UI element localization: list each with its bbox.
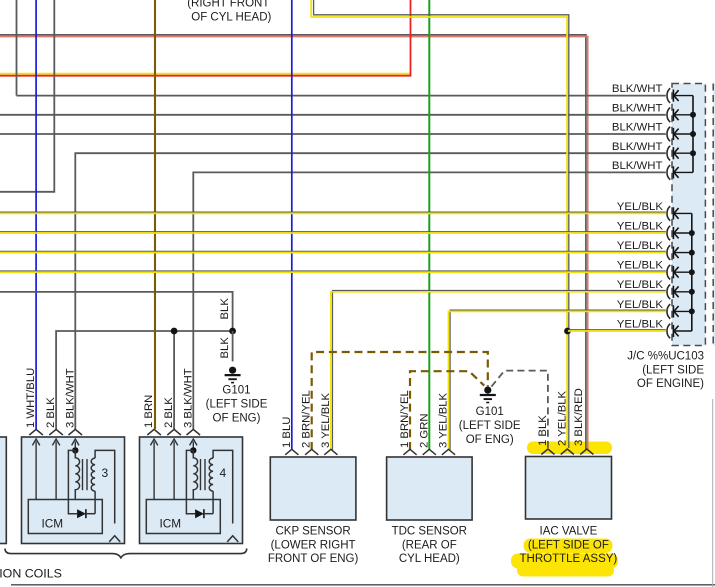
wire BLK/WHT 1 — [17, 95, 666, 97]
svg-text:(LEFT SIDE: (LEFT SIDE — [642, 364, 704, 376]
svg-text:FRONT OF ENG): FRONT OF ENG) — [268, 553, 359, 565]
wire YEL/BLK 7 (from IAC dot) yellow part — [568, 330, 666, 332]
svg-text:YEL/BLK: YEL/BLK — [617, 279, 664, 291]
label BLK on ground branch lower — [219, 337, 231, 359]
wire YEL/BLK 2 black stripe part — [0, 231, 666, 233]
svg-text:YEL/BLK: YEL/BLK — [617, 299, 664, 311]
J/C splice dot — [690, 131, 696, 137]
J/C terminal YEL/BLK 6 — [667, 304, 692, 319]
pin label 1 BRN/YEL (TDC) — [399, 390, 411, 448]
svg-text:G101: G101 — [222, 384, 250, 396]
svg-text:OF ENG): OF ENG) — [213, 413, 261, 425]
ignition coil 4 secondary winding — [209, 458, 213, 491]
svg-text:IAC VALVE: IAC VALVE — [540, 525, 598, 537]
label IAC VALVE — [520, 525, 618, 565]
ignition coil 3 secondary top lead — [95, 450, 115, 523]
J/C terminal YEL/BLK 1 — [667, 206, 692, 221]
svg-text:BLK: BLK — [219, 337, 231, 359]
pin label 3 BLK/WHT (coil 3) — [64, 368, 76, 428]
ignition coil 3 core — [83, 459, 88, 490]
pin label 3 YEL/BLK (CKP) — [320, 392, 332, 448]
highlighter mark over "(LEFT SIDE OF" — [524, 539, 613, 554]
ignition coil 4 pin 2 arrow — [170, 439, 177, 500]
J/C terminal YEL/BLK 4 — [667, 265, 692, 280]
wire BLK/WHT 5 (to coil 4 pin 3) — [193, 172, 666, 429]
pin label 1 WHT/BLU — [25, 368, 37, 428]
svg-text:BLK/WHT: BLK/WHT — [612, 141, 663, 153]
wire YEL/BLK 5 (from CKP pin 3) black stripe part — [333, 291, 666, 451]
label CKP SENSOR — [268, 525, 359, 565]
wire YEL/BLK 1 black stripe part — [0, 211, 666, 213]
svg-text:1 BLK: 1 BLK — [537, 415, 549, 446]
svg-text:3 BLK/WHT: 3 BLK/WHT — [182, 368, 194, 428]
pin label 1 BRN — [143, 395, 155, 428]
wire GRN (to TDC pin 2) — [428, 0, 430, 450]
svg-text:2 BLK: 2 BLK — [45, 397, 57, 428]
wire BLK branch to other coils — [0, 292, 233, 331]
ignition coil 3 junction dot — [72, 447, 78, 453]
TDC sensor box — [387, 457, 473, 520]
pin label 2 YEL/BLK (IAC) — [556, 390, 568, 446]
ignition coil (cut off) box — [0, 437, 6, 544]
ignition coil 4 diode output lead — [204, 491, 213, 514]
TDC sensor pin chevrons — [403, 449, 455, 455]
svg-text:1 BLU: 1 BLU — [281, 417, 293, 448]
svg-text:OF ENG): OF ENG) — [466, 434, 514, 446]
label J/C C103 — [627, 350, 704, 390]
J/C splice dot — [689, 289, 695, 295]
ignition coil 4 core — [201, 459, 206, 490]
J/C splice jumper BLK/WHT group — [692, 96, 694, 173]
wire YEL/BLK 6 (from TDC pin 3) yellow part — [449, 311, 666, 450]
wire BLK to ground G101 left — [232, 331, 234, 362]
J/C splice dot — [690, 112, 696, 118]
J/C terminal BLK/WHT 4 — [667, 146, 693, 161]
wire BLK exiting top left — [0, 0, 54, 192]
svg-text:OF ENGINE): OF ENGINE) — [637, 378, 704, 390]
wire YEL/BLK 7 (from IAC dot) black stripe part — [569, 329, 666, 331]
svg-text:(LEFT SIDE: (LEFT SIDE — [206, 399, 268, 411]
svg-text:THROTTLE ASSY): THROTTLE ASSY) — [520, 553, 618, 565]
wire BLK coil 3 pin 2 — [56, 331, 233, 429]
wire BLK/WHT 2 — [0, 114, 666, 116]
J/C terminal YEL/BLK 5 — [667, 285, 692, 300]
J/C splice dot — [689, 230, 695, 236]
highlighter mark over "THROTTLE ASSY)" — [511, 554, 618, 577]
ignition coil 3 bypass lead to diode — [68, 450, 77, 513]
J/C terminal BLK/WHT 2 — [667, 108, 693, 123]
ignition coil 4 ICM box — [146, 500, 220, 534]
J/C splice dot — [689, 269, 695, 275]
wire BRN/YEL from CKP pin 2 to G101 (dashed) — [312, 352, 488, 450]
note (RIGHT FRONT OF CYL HEAD) — [187, 0, 271, 24]
wire BRN/YEL from TDC pin 1 to G101 (dashed) — [410, 371, 484, 450]
pin label 2 BLK (coil 3) — [45, 397, 57, 428]
right frame line — [712, 399, 714, 587]
wire YEL/BLK 3 yellow part — [0, 252, 666, 254]
wire YEL/BLK 4 yellow part — [0, 271, 666, 273]
wire WHT/BLU (to coil 3 pin 1) — [35, 0, 37, 429]
J/C terminal YEL/BLK 2 — [667, 226, 692, 241]
ignition coil 4 pin chevrons — [147, 429, 200, 435]
pin label 1 BLK (IAC) — [537, 415, 549, 446]
label G101 right — [459, 406, 521, 446]
svg-text:3: 3 — [101, 466, 108, 480]
wire YEL/BLK 4 black stripe part — [0, 270, 666, 272]
CKP sensor box — [270, 457, 356, 520]
ignition coil 4 secondary top lead — [213, 450, 233, 523]
wire RED/YEL red part — [0, 0, 411, 76]
svg-text:YEL/BLK: YEL/BLK — [617, 318, 664, 330]
ignition coil 4 pin 1 arrow — [150, 439, 157, 500]
junction connector mating half sliver — [713, 84, 715, 346]
ignition coil 4 primary winding — [193, 450, 197, 499]
ignition coil 3 case chevron — [109, 536, 120, 542]
wire YEL/BLK 1 yellow part — [0, 212, 666, 214]
ignition coil 3 pin 2 arrow — [52, 439, 59, 500]
svg-text:(RIGHT FRONT: (RIGHT FRONT — [187, 0, 269, 9]
svg-text:BLK/WHT: BLK/WHT — [612, 102, 663, 114]
wire BLK coil 4 pin 2 — [173, 331, 175, 429]
junction dot BLK bus at coil 4 — [171, 328, 178, 335]
svg-text:G101: G101 — [476, 406, 504, 418]
svg-text:ICM: ICM — [160, 517, 182, 531]
wire YEL/BLK 6 (from TDC pin 3) black stripe part — [450, 310, 666, 450]
svg-text:2 GRN: 2 GRN — [418, 413, 430, 448]
svg-text:BLK: BLK — [219, 298, 231, 320]
ignition coil 3 diode — [77, 509, 86, 518]
svg-text:J/C %%UC103: J/C %%UC103 — [627, 350, 704, 362]
svg-text:4: 4 — [219, 466, 226, 480]
wire BRN (to coil 4 pin 1) — [154, 0, 156, 429]
svg-text:3 YEL/BLK: 3 YEL/BLK — [438, 392, 450, 448]
junction connector J/C C103 box — [672, 84, 705, 346]
ignition coil 3 secondary winding — [91, 458, 95, 491]
svg-text:(REAR OF: (REAR OF — [402, 539, 457, 551]
pin label 2 BRN/YEL (CKP) — [301, 390, 313, 448]
IAC valve box — [526, 457, 612, 520]
svg-text:IGNITION COILS: IGNITION COILS — [0, 566, 62, 580]
svg-text:2 YEL/BLK: 2 YEL/BLK — [556, 390, 568, 446]
svg-text:3 YEL/BLK: 3 YEL/BLK — [320, 392, 332, 448]
ignition coil 4 case chevron — [227, 536, 238, 542]
ground G101 right — [480, 387, 496, 403]
svg-text:CKP SENSOR: CKP SENSOR — [275, 525, 350, 537]
ignition coil 3 pin 1 arrow — [32, 439, 39, 500]
wire YEL/BLK 5 (from CKP pin 3) yellow part — [331, 292, 666, 450]
J/C terminal YEL/BLK 7 — [667, 324, 692, 339]
svg-text:(LEFT SIDE: (LEFT SIDE — [459, 420, 521, 432]
ignition coil 4 pin 3 arrow — [190, 439, 197, 450]
svg-text:3 BLK/WHT: 3 BLK/WHT — [64, 368, 76, 428]
J/C splice dot — [689, 308, 695, 314]
pin label 3 BLK/WHT (coil 4) — [182, 368, 194, 428]
wire BLK/WHT 4 (to coil 3 pin 3) — [75, 153, 666, 429]
svg-text:OF CYL HEAD): OF CYL HEAD) — [191, 12, 271, 24]
bottom frame line — [11, 584, 715, 586]
ignition coil 3 box — [22, 437, 125, 544]
svg-text:(LEFT SIDE OF: (LEFT SIDE OF — [528, 539, 609, 551]
svg-text:1 BRN/YEL: 1 BRN/YEL — [399, 390, 411, 448]
J/C splice jumper YEL/BLK group — [691, 213, 693, 331]
svg-text:2 BRN/YEL: 2 BRN/YEL — [301, 390, 313, 448]
ignition coil 3 pin chevrons — [29, 429, 82, 435]
svg-text:1 BRN: 1 BRN — [143, 395, 155, 428]
label G101 left — [206, 384, 268, 424]
wire YEL/BLK 3 black stripe part — [0, 250, 666, 252]
wire YEL/BLK to IAC pin 2, yellow part — [311, 0, 567, 448]
pin label 2 GRN — [418, 413, 430, 448]
ignition coil 4 junction dot — [190, 447, 196, 453]
J/C splice dot — [689, 250, 695, 256]
ground G101 left — [225, 367, 241, 383]
IAC valve pin chevrons — [541, 449, 593, 455]
svg-text:YEL/BLK: YEL/BLK — [617, 260, 664, 272]
svg-text:BLK/WHT: BLK/WHT — [612, 83, 663, 95]
wire RED/YEL yellow stripe part — [0, 73, 410, 75]
wire BLK/WHT 3 — [0, 133, 666, 135]
svg-text:YEL/BLK: YEL/BLK — [617, 220, 664, 232]
pin label 3 YEL/BLK (TDC) — [438, 392, 450, 448]
ignition coil 4 diode — [195, 509, 204, 518]
pin label 1 BLU — [281, 417, 293, 448]
J/C splice dot — [690, 150, 696, 156]
ignition coil 4 bypass lead to diode — [186, 450, 195, 513]
wire BLU (to CKP pin 1) — [291, 0, 293, 450]
svg-text:3 BLK/RED: 3 BLK/RED — [573, 388, 585, 446]
wire BLK/RED red stripe part — [0, 37, 588, 450]
svg-text:CYL HEAD): CYL HEAD) — [399, 553, 460, 565]
junction dot BLK bus at ground drop — [229, 328, 236, 335]
J/C terminal YEL/BLK 3 — [667, 245, 692, 260]
svg-text:(LOWER RIGHT: (LOWER RIGHT — [271, 539, 356, 551]
svg-text:YEL/BLK: YEL/BLK — [617, 240, 664, 252]
wire YEL/BLK 2 yellow part — [0, 232, 666, 234]
svg-text:TDC SENSOR: TDC SENSOR — [392, 525, 467, 537]
label BLK on ground branch upper — [219, 298, 231, 320]
brace IGNITION COILS — [5, 549, 247, 558]
ignition coil 4 box — [140, 437, 243, 544]
wire BLK/WHT 1 vertical from top — [16, 0, 18, 96]
highlighter mark over IAC pin numbers — [527, 442, 612, 455]
svg-text:BLK/WHT: BLK/WHT — [612, 122, 663, 134]
J/C terminal BLK/WHT 1 — [667, 88, 693, 103]
CKP sensor pin chevrons — [285, 449, 337, 455]
svg-text:YEL/BLK: YEL/BLK — [617, 201, 664, 213]
svg-text:BLK/WHT: BLK/WHT — [612, 160, 663, 172]
wire BLK/RED black part (to IAC pin 3) — [0, 35, 586, 449]
wire YEL/BLK to IAC pin 2, black stripe part — [314, 0, 569, 448]
ignition coil 3 pin 3 arrow — [72, 439, 79, 450]
junction dot on IAC YEL/BLK wire — [564, 328, 571, 335]
ignition coil 3 ICM box — [28, 500, 102, 534]
svg-text:ICM: ICM — [42, 517, 64, 531]
svg-text:1 WHT/BLU: 1 WHT/BLU — [25, 368, 37, 428]
ignition coil 3 diode output lead — [86, 491, 95, 514]
J/C terminal BLK/WHT 3 — [667, 127, 693, 142]
ignition coil 3 primary winding — [75, 450, 79, 499]
pin label 3 BLK/RED (IAC) — [573, 388, 585, 446]
wire BLK from G101 to IAC pin 1 (dashed) — [491, 371, 548, 448]
J/C terminal BLK/WHT 5 — [667, 165, 693, 180]
pin label 2 BLK (coil 4) — [163, 397, 175, 428]
label TDC SENSOR — [392, 525, 467, 565]
svg-text:2 BLK: 2 BLK — [163, 397, 175, 428]
